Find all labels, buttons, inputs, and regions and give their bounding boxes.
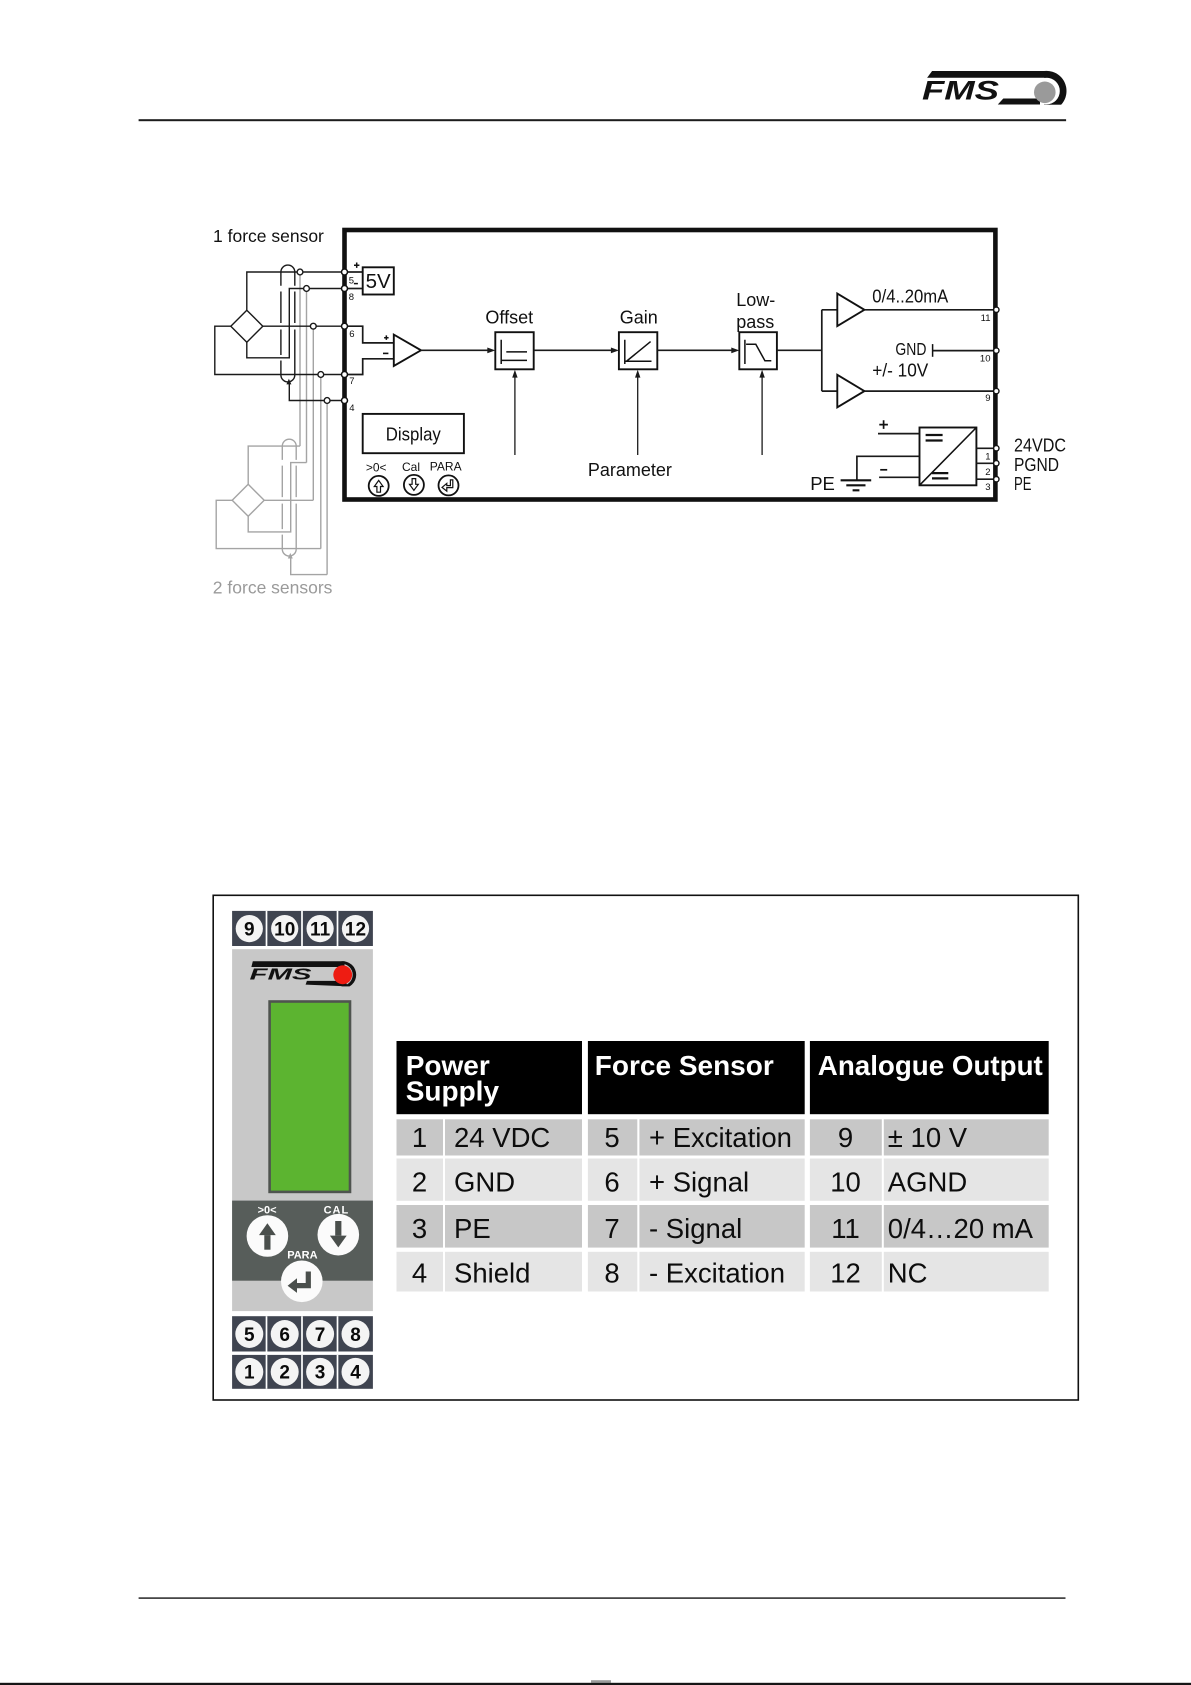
minus label at converter: [880, 469, 887, 471]
svg-text:10: 10: [980, 354, 991, 365]
parameter arrow into Low-pass: [761, 376, 763, 455]
op-amp voltage output driver: [837, 375, 864, 408]
device panel body: [232, 949, 373, 1311]
wire pin6 (signal+): [263, 325, 345, 327]
svg-text:9: 9: [985, 393, 990, 404]
svg-text:24VDC: 24VDC: [1014, 434, 1066, 455]
svg-text:12: 12: [345, 919, 366, 940]
svg-text:0/4…20 mA: 0/4…20 mA: [888, 1213, 1034, 1244]
white flatten under swoosh: [1020, 105, 1075, 117]
svg-text:8: 8: [350, 1325, 361, 1346]
svg-text:PE: PE: [1014, 473, 1032, 494]
svg-text:9: 9: [244, 919, 255, 940]
force sensor 2 (gray): [216, 439, 327, 574]
svg-text:0/4..20mA: 0/4..20mA: [872, 287, 948, 307]
svg-text:4: 4: [349, 403, 354, 414]
connector circles on sensor wires: [297, 269, 330, 403]
wire drop pin4: [326, 401, 328, 575]
small FMS logo on panel: top band: [251, 961, 344, 967]
pin 5: [342, 269, 348, 275]
svg-text:2: 2: [412, 1167, 427, 1198]
svg-text:8: 8: [349, 292, 354, 303]
wire - to converter: [879, 476, 919, 478]
svg-text:4: 4: [412, 1258, 427, 1289]
Gain block: [619, 332, 657, 369]
svg-text:6: 6: [279, 1325, 290, 1346]
wire converter to pin 2: [976, 462, 993, 464]
table header Analogue Output: [810, 1041, 1049, 1114]
pin 10: [994, 348, 999, 353]
wire pin5 (excitation+): [247, 272, 345, 310]
power supply converter block: [920, 428, 977, 486]
device panel top terminal strip 9-12: [232, 911, 373, 946]
plus label at amp: [384, 335, 389, 340]
FMS logo top band: [927, 71, 1046, 78]
table data text: [412, 1122, 1034, 1289]
wire pin7 (signal-): [215, 326, 345, 374]
svg-text:5: 5: [604, 1122, 619, 1153]
svg-text:1: 1: [412, 1122, 427, 1153]
svg-text:>0<: >0<: [258, 1205, 277, 1217]
svg-text:10: 10: [830, 1167, 861, 1198]
wire drop pin7: [320, 375, 322, 549]
svg-text:Supply: Supply: [406, 1076, 500, 1107]
minus label at amp: [383, 352, 388, 354]
svg-text:3: 3: [315, 1363, 326, 1384]
svg-text:2: 2: [985, 467, 990, 478]
svg-text:12: 12: [830, 1258, 861, 1289]
wire s2 signal+: [264, 499, 313, 501]
svg-text:- Signal: - Signal: [649, 1213, 742, 1244]
svg-text:1: 1: [244, 1363, 255, 1384]
svg-text:- Excitation: - Excitation: [649, 1258, 785, 1289]
svg-text:6: 6: [349, 329, 354, 340]
gray drop wires to second sensor: [300, 272, 327, 575]
pin 2: [994, 461, 999, 466]
pin 3: [994, 477, 999, 482]
wire Offset to Gain: [534, 349, 612, 351]
wire pin4 (shield): [289, 383, 344, 401]
figure 2 frame: [213, 895, 1078, 1400]
svg-text:Parameter: Parameter: [588, 460, 672, 480]
wire + to converter: [878, 433, 920, 435]
5V supply box U2: [363, 267, 394, 294]
svg-text:7: 7: [315, 1325, 326, 1346]
wire converter to pin 3: [976, 478, 993, 480]
node cable5: [297, 269, 303, 275]
Offset block: [495, 332, 533, 369]
sensor 1 cable shield loop: [281, 265, 295, 272]
svg-text:>0<: >0<: [366, 460, 387, 474]
sensor 2 cable shield loop: [282, 439, 296, 446]
wire s2 shield: [291, 558, 327, 575]
FMS logo roller: [1034, 82, 1056, 104]
svg-text:5: 5: [349, 276, 354, 287]
sensor 2 bridge diamond: [232, 484, 264, 516]
svg-text:3: 3: [412, 1213, 427, 1244]
svg-text:GND: GND: [895, 339, 926, 359]
svg-text:24 VDC: 24 VDC: [454, 1122, 550, 1153]
pin 9: [994, 388, 999, 393]
table header Power Supply: [397, 1041, 583, 1114]
svg-text:PE: PE: [454, 1213, 491, 1244]
svg-text:+/- 10V: +/- 10V: [872, 361, 928, 381]
wire pin5 to 5V: [347, 271, 363, 273]
svg-text:+ Signal: + Signal: [649, 1167, 749, 1198]
sensor 2 shield arrow: [288, 553, 293, 559]
node cable6: [310, 323, 316, 329]
key button up: [247, 1215, 289, 1257]
svg-text:PARA: PARA: [430, 460, 462, 474]
FMS logo swoosh half-ring: [1044, 71, 1067, 111]
op-amp current output driver: [837, 294, 864, 327]
table row backgrounds: [397, 1119, 1049, 1291]
svg-text:10: 10: [274, 919, 295, 940]
wire s2 excitation-: [248, 463, 306, 532]
svg-text:11: 11: [981, 313, 991, 324]
svg-text:PE: PE: [810, 473, 835, 494]
key button cal: [404, 475, 424, 495]
wire Gain to Low-pass: [657, 349, 732, 351]
svg-text:1 force sensor: 1 force sensor: [213, 226, 324, 246]
op-amp U1 input amplifier: [394, 335, 421, 366]
parameter arrow into Offset: [514, 376, 516, 455]
amplifier main box: [345, 230, 996, 500]
svg-text:3: 3: [985, 482, 990, 493]
pin 11: [994, 307, 999, 312]
svg-text:Cal: Cal: [402, 460, 420, 474]
svg-text:PARA: PARA: [287, 1250, 317, 1262]
wire to pin 9: [864, 390, 993, 392]
pin 7: [342, 372, 348, 378]
svg-text:Shield: Shield: [454, 1258, 530, 1289]
terminal circles on left edge: [342, 269, 348, 404]
terminal circles on right edge: [994, 307, 999, 482]
sensor 1 bridge diamond: [231, 310, 263, 342]
svg-text:9: 9: [838, 1122, 853, 1153]
svg-text:FMS: FMS: [922, 75, 999, 105]
table header Force Sensor: [588, 1041, 805, 1114]
force sensor 1 (black): [215, 265, 345, 400]
pin 6: [342, 323, 348, 329]
wire pin8 to 5V: [347, 288, 363, 290]
wire pin8 (excitation-): [247, 289, 345, 358]
svg-text:NC: NC: [888, 1258, 928, 1289]
wire to pin 11: [864, 309, 993, 311]
svg-text:1: 1: [985, 452, 990, 463]
svg-text:2 force sensors: 2 force sensors: [213, 578, 333, 598]
svg-text:11: 11: [310, 919, 331, 940]
wire drop pin5: [299, 272, 301, 446]
svg-text:pass: pass: [736, 312, 774, 332]
pin 1: [994, 446, 999, 451]
key button zero: [369, 476, 389, 496]
Display box: [363, 414, 464, 453]
svg-text:4: 4: [350, 1363, 361, 1384]
input stub wires: [347, 326, 394, 343]
minus label at 5V: [354, 283, 358, 285]
key pad dark area: [232, 1201, 373, 1281]
svg-text:+ Excitation: + Excitation: [649, 1122, 792, 1153]
header rule: [139, 119, 1067, 121]
device panel terminal strip 1-4: [232, 1355, 373, 1389]
svg-text:Offset: Offset: [485, 308, 533, 328]
svg-text:8: 8: [604, 1258, 619, 1289]
device panel terminal strip 5-8: [232, 1316, 373, 1351]
wire s2 excitation+: [248, 446, 300, 484]
node cable4: [324, 398, 330, 404]
green display: [268, 1000, 351, 1193]
svg-text:Gain: Gain: [620, 308, 658, 328]
small logo swoosh: [342, 961, 357, 988]
svg-text:AGND: AGND: [888, 1167, 967, 1198]
svg-text:6: 6: [604, 1167, 619, 1198]
pin 8: [342, 286, 348, 292]
svg-text:Force Sensor: Force Sensor: [595, 1050, 774, 1081]
footer page number sliver: [591, 1680, 611, 1683]
wire PE to converter: [857, 456, 920, 480]
small logo bottom band: [306, 981, 348, 987]
pin 4: [342, 398, 348, 404]
svg-text:7: 7: [349, 376, 354, 387]
svg-text:± 10 V: ± 10 V: [888, 1122, 968, 1153]
FMS logo bottom band: [998, 99, 1040, 105]
ground symbol PE: [841, 480, 872, 490]
svg-text:7: 7: [604, 1213, 619, 1244]
node cable8: [304, 286, 310, 292]
svg-text:Display: Display: [386, 425, 441, 445]
key button down: [318, 1214, 360, 1256]
parameter arrow into Gain: [637, 376, 639, 455]
small logo red roller: [333, 965, 352, 984]
footer rule: [139, 1597, 1066, 1599]
svg-text:5: 5: [244, 1325, 255, 1346]
plus label at 5V: [354, 263, 359, 268]
key button enter: [281, 1261, 323, 1303]
sensor 1 shield arrow: [286, 379, 291, 385]
Low-pass block: [739, 332, 777, 369]
page bottom edge: [0, 1683, 1191, 1685]
svg-text:2: 2: [279, 1363, 290, 1384]
wire s2 signal-: [216, 500, 321, 548]
svg-text:11: 11: [831, 1213, 860, 1244]
wire GND to pin 10: [933, 350, 993, 352]
svg-text:GND: GND: [454, 1167, 515, 1198]
wire amp to Offset: [421, 349, 488, 351]
wire Low-pass to splitter: [777, 310, 837, 391]
node cable7: [318, 372, 324, 378]
svg-text:Low-: Low-: [736, 290, 775, 310]
wire converter to pin 1: [976, 447, 993, 449]
svg-text:5V: 5V: [366, 270, 391, 293]
wire drop pin8: [306, 289, 308, 463]
svg-text:FMS: FMS: [250, 967, 313, 984]
plus label at converter: [879, 420, 888, 429]
svg-text:Analogue Output: Analogue Output: [818, 1050, 1043, 1081]
wire drop pin6: [312, 326, 314, 500]
key button para: [439, 475, 459, 495]
